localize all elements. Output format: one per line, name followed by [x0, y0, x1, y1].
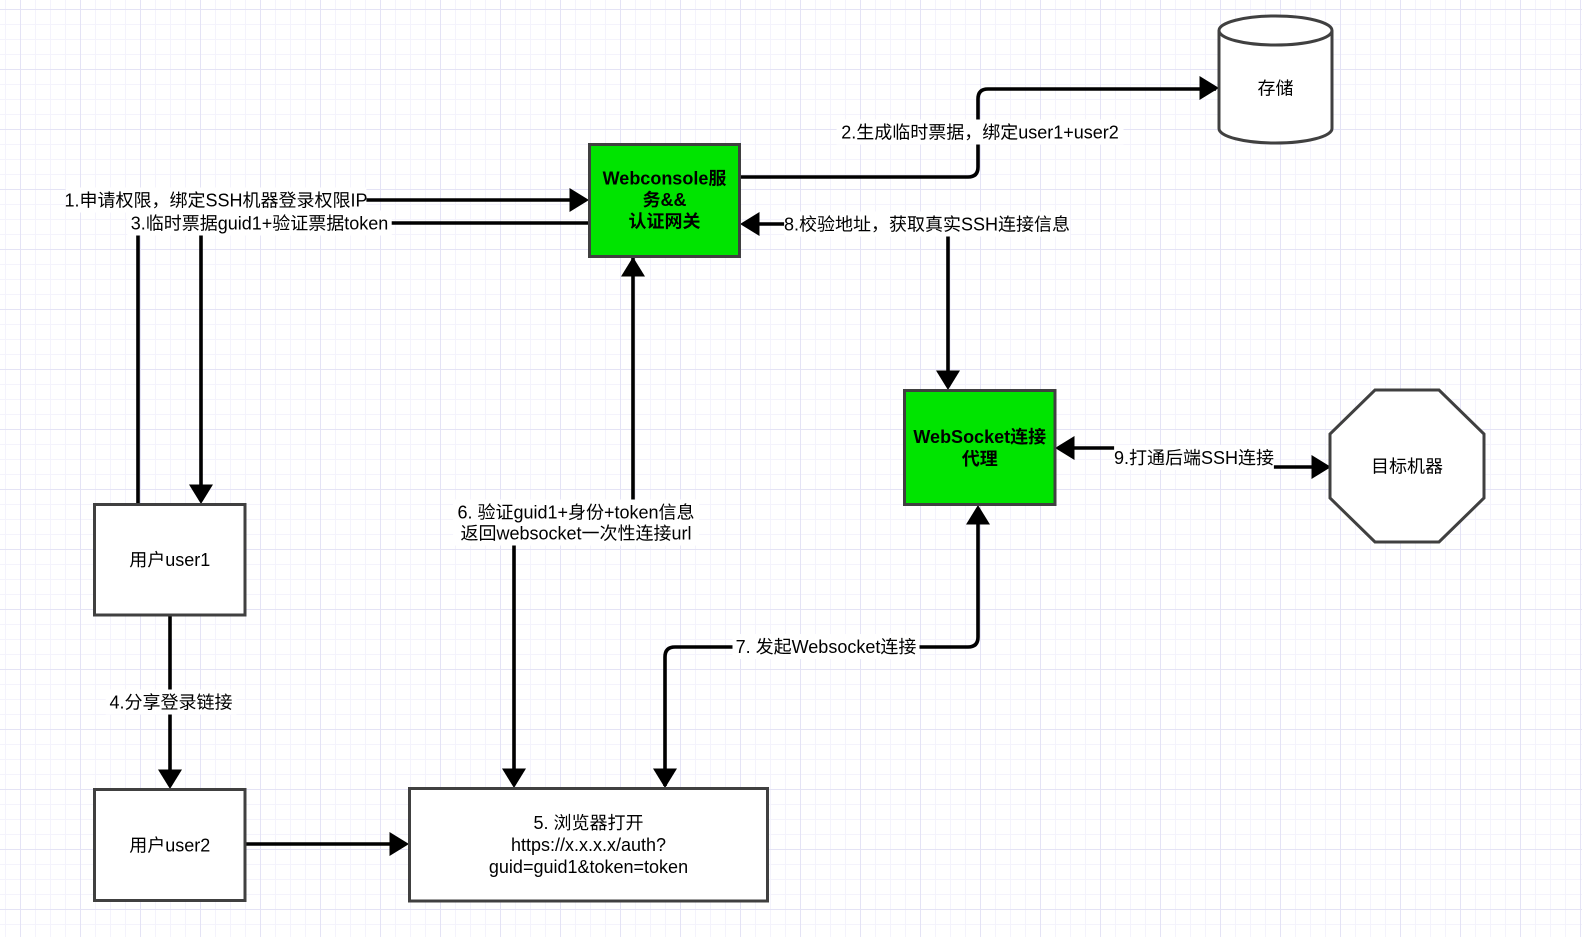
svg-text:返回websocket一次性连接url: 返回websocket一次性连接url: [460, 523, 691, 543]
label edge1 1.申请权限: [64, 188, 367, 213]
svg-text:5. 浏览器打开: 5. 浏览器打开: [533, 813, 643, 833]
svg-text:3.临时票据guid1+验证票据token: 3.临时票据guid1+验证票据token: [131, 213, 389, 233]
wire edge6 Webconsole to browser box: [502, 257, 645, 788]
wire edge5 user2 to browser box: [245, 832, 409, 856]
svg-text:代理: 代理: [962, 449, 998, 469]
svg-text:WebSocket连接: WebSocket连接: [913, 427, 1046, 447]
svg-text:guid=guid1&token=token: guid=guid1&token=token: [489, 857, 688, 877]
box user2: [95, 790, 246, 901]
svg-text:用户user1: 用户user1: [129, 550, 210, 570]
wire edge1 user1 to Webconsole: [138, 188, 589, 504]
label edge7 7.发起Websocket连接: [733, 634, 920, 659]
svg-text:6. 验证guid1+身份+token信息: 6. 验证guid1+身份+token信息: [457, 502, 694, 522]
svg-text:目标机器: 目标机器: [1371, 456, 1443, 476]
octagon target machine 目标机器: [1330, 390, 1484, 542]
wire edge9 WebSocket proxy to target machine: [1055, 436, 1331, 479]
svg-text:1.申请权限，绑定SSH机器登录权限IP: 1.申请权限，绑定SSH机器登录权限IP: [64, 190, 367, 210]
svg-text:2.生成临时票据，绑定user1+user2: 2.生成临时票据，绑定user1+user2: [841, 122, 1119, 142]
cylinder storage 存储: [1219, 16, 1332, 143]
box U1 Webconsole service and auth gateway: [590, 145, 740, 257]
wire edge2 Webconsole to storage: [740, 76, 1219, 177]
svg-text:7. 发起Websocket连接: 7. 发起Websocket连接: [736, 637, 917, 657]
wire edge8 WebSocket proxy to Webconsole: [740, 212, 960, 390]
label edge2 2.生成临时票据: [837, 120, 1124, 145]
svg-text:存储: 存储: [1258, 78, 1294, 98]
wire edge7 browser box to WebSocket proxy: [653, 505, 990, 788]
box browser open url: [410, 789, 768, 902]
label edge8 8.校验地址: [784, 212, 1070, 237]
wire edge4 user1 to user2: [158, 615, 182, 789]
svg-text:务&&: 务&&: [643, 190, 687, 210]
svg-text:Webconsole服: Webconsole服: [603, 168, 727, 188]
label edge3 3.临时票据: [127, 211, 391, 236]
box U2 WebSocket connection proxy: [905, 391, 1056, 505]
svg-text:用户user2: 用户user2: [129, 835, 210, 855]
label edge9 9.打通后端SSH连接: [1114, 445, 1274, 470]
label edge6 6.验证guid1: [453, 500, 699, 546]
label edge4 4.分享登录链接: [106, 690, 237, 715]
box user1: [95, 505, 246, 616]
wire edge3 Webconsole to user1: [189, 223, 589, 504]
svg-text:4.分享登录链接: 4.分享登录链接: [109, 692, 232, 712]
svg-text:9.打通后端SSH连接: 9.打通后端SSH连接: [1114, 448, 1274, 468]
svg-text:8.校验地址，获取真实SSH连接信息: 8.校验地址，获取真实SSH连接信息: [784, 214, 1070, 234]
svg-text:https://x.x.x.x/auth?: https://x.x.x.x/auth?: [511, 835, 666, 855]
svg-text:认证网关: 认证网关: [629, 211, 701, 231]
